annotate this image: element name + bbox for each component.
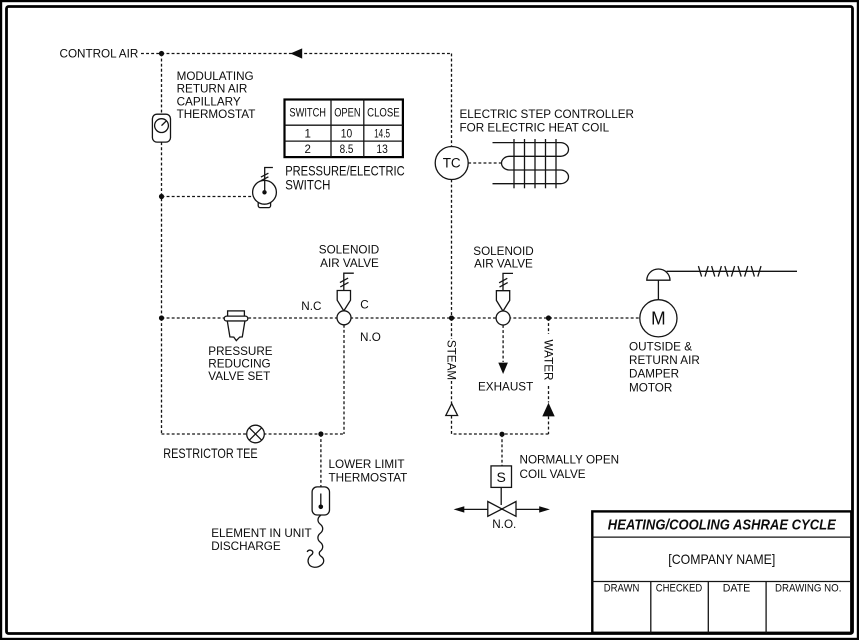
steam supply arrow open: [446, 404, 458, 416]
junction: control air to left branch: [159, 51, 164, 56]
svg-text:SWITCH: SWITCH: [289, 107, 326, 119]
svg-text:AIR VALVE: AIR VALVE: [320, 257, 379, 270]
label PRESSURE REDUCING VALVE SET: [208, 345, 273, 383]
wire: branch to lower limit thermostat: [320, 434, 322, 487]
label SOLENOID AIR VALVE left: [319, 244, 379, 271]
junction: main line / left branch: [159, 315, 164, 320]
exhaust arrow: [498, 363, 508, 374]
svg-text:SOLENOID: SOLENOID: [473, 245, 533, 258]
svg-text:N.O.: N.O.: [492, 518, 516, 531]
svg-text:MODULATING: MODULATING: [177, 70, 254, 83]
water supply arrow filled: [542, 403, 554, 417]
title block: [592, 511, 851, 632]
junction: main line / water line: [546, 315, 551, 320]
svg-text:COIL VALVE: COIL VALVE: [520, 468, 586, 481]
label MODULATING RETURN AIR CAPILLARY THERMOSTAT: [177, 70, 256, 121]
wire: main air line: [162, 317, 640, 319]
svg-text:ELEMENT IN UNIT: ELEMENT IN UNIT: [211, 527, 311, 540]
label ELEMENT IN UNIT DISCHARGE: [211, 527, 311, 553]
svg-text:STEAM: STEAM: [445, 340, 458, 380]
svg-text:M: M: [651, 308, 666, 329]
svg-text:S: S: [497, 469, 506, 485]
valve body V1 bowtie: [488, 502, 516, 517]
junction: lower limit thermostat branch: [318, 431, 323, 436]
svg-text:FOR ELECTRIC HEAT COIL: FOR ELECTRIC HEAT COIL: [460, 122, 610, 135]
svg-text:13: 13: [376, 144, 387, 156]
label OUTSIDE & RETURN AIR DAMPER MOTOR: [629, 340, 700, 394]
pressure reducing valve PRV: [224, 311, 248, 341]
restrictor tee RT1: [247, 425, 265, 443]
svg-text:NORMALLY OPEN: NORMALLY OPEN: [520, 453, 620, 466]
svg-text:AIR VALVE: AIR VALVE: [474, 258, 533, 271]
svg-text:C: C: [360, 299, 368, 312]
svg-text:PRESSURE: PRESSURE: [208, 345, 273, 358]
switch table SWITCH/OPEN/CLOSE: [285, 100, 403, 158]
svg-text:OPEN: OPEN: [334, 107, 360, 119]
svg-text:DAMPER: DAMPER: [629, 368, 679, 381]
label LOWER LIMIT THERMOSTAT: [329, 458, 408, 484]
svg-text:CLOSE: CLOSE: [367, 107, 400, 119]
svg-text:N.C: N.C: [301, 300, 321, 313]
controller TC temperature step controller: [435, 147, 468, 180]
svg-text:RETURN AIR: RETURN AIR: [177, 83, 248, 96]
label SOLENOID AIR VALVE right: [473, 245, 533, 271]
svg-text:OUTSIDE &: OUTSIDE &: [629, 340, 692, 353]
svg-text:MOTOR: MOTOR: [629, 381, 672, 394]
svg-text:VALVE SET: VALVE SET: [208, 370, 270, 383]
svg-text:DRAWING NO.: DRAWING NO.: [775, 582, 842, 594]
svg-text:N.O: N.O: [360, 331, 381, 344]
svg-text:2: 2: [304, 144, 310, 156]
svg-text:HEATING/COOLING ASHRAE CYCLE: HEATING/COOLING ASHRAE CYCLE: [608, 517, 837, 533]
thermostat TS1 modulating return air capillary: [152, 114, 170, 142]
junction: pressure/electric switch branch: [159, 194, 164, 199]
svg-text:CHECKED: CHECKED: [656, 582, 702, 594]
svg-text:CONTROL AIR: CONTROL AIR: [60, 47, 139, 60]
svg-text:RETURN AIR: RETURN AIR: [629, 354, 700, 367]
svg-text:1: 1: [304, 128, 310, 140]
svg-text:8.5: 8.5: [340, 144, 354, 156]
wire: steam line: [452, 180, 503, 435]
flow arrow on control air header: [290, 48, 302, 58]
wire: restrictor bottom line: [162, 433, 345, 435]
svg-text:LOWER LIMIT: LOWER LIMIT: [329, 458, 405, 471]
lower limit thermostat TS2: [312, 487, 329, 515]
svg-text:SWITCH: SWITCH: [285, 177, 330, 193]
pressure/electric switch PE1: [253, 168, 277, 208]
junction: main line / steam line: [449, 315, 454, 320]
svg-text:TC: TC: [443, 156, 461, 171]
wire: TC to heat coil: [468, 162, 501, 164]
wire: left branch vertical: [161, 54, 163, 435]
wire: coil valve pipe with flow arrows: [454, 506, 550, 512]
wire: exhaust drop from SV2: [502, 325, 504, 362]
solenoid air valve SV2: [496, 273, 513, 325]
wire: branch to coil valve solenoid: [501, 434, 503, 466]
svg-text:RESTRICTOR TEE: RESTRICTOR TEE: [163, 445, 257, 461]
svg-text:THERMOSTAT: THERMOSTAT: [329, 471, 408, 484]
damper motor M1: [640, 269, 677, 337]
svg-text:WATER: WATER: [542, 340, 555, 381]
solenoid air valve SV1: [337, 273, 354, 325]
svg-text:THERMOSTAT: THERMOSTAT: [177, 108, 256, 121]
label ELECTRIC STEP CONTROLLER FOR ELECTRIC HEAT COIL: [460, 108, 635, 135]
svg-text:DISCHARGE: DISCHARGE: [211, 540, 281, 553]
junction: coil valve branch: [499, 432, 504, 437]
svg-text:REDUCING: REDUCING: [208, 358, 270, 371]
solenoid coil valve V1 (S box): [491, 466, 512, 505]
electric heat coil: [493, 139, 569, 188]
svg-text:10: 10: [341, 128, 352, 140]
svg-text:EXHAUST: EXHAUST: [478, 381, 533, 394]
label PRESSURE/ELECTRIC SWITCH: [285, 163, 405, 193]
svg-text:DRAWN: DRAWN: [604, 582, 640, 594]
svg-text:[COMPANY NAME]: [COMPANY NAME]: [668, 551, 775, 567]
svg-text:CAPILLARY: CAPILLARY: [177, 95, 241, 108]
svg-text:SOLENOID: SOLENOID: [319, 244, 379, 257]
svg-text:ELECTRIC STEP CONTROLLER: ELECTRIC STEP CONTROLLER: [460, 108, 635, 121]
capillary element in unit discharge: [307, 515, 323, 567]
wire: water line: [502, 318, 549, 434]
wire: branch to pressure/electric switch: [162, 196, 254, 198]
wire: SV1 normally-open port drop: [343, 325, 345, 434]
svg-text:DATE: DATE: [723, 582, 751, 594]
label NORMALLY OPEN COIL VALVE: [520, 453, 620, 481]
svg-text:14.5: 14.5: [374, 128, 390, 140]
damper linkage with hash marks: [667, 266, 798, 277]
wire: control air header line: [141, 54, 452, 147]
